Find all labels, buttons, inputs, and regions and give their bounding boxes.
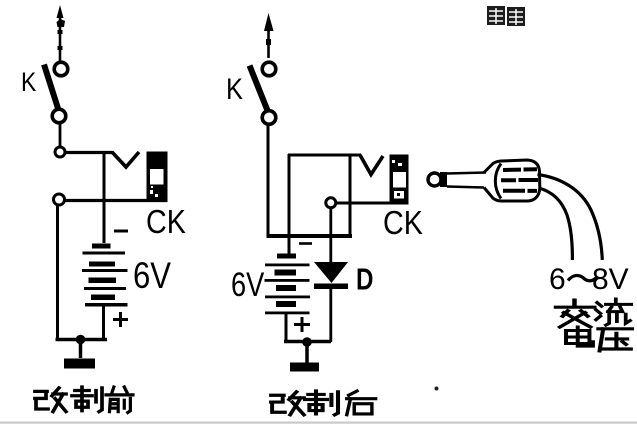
制 [305,391,338,415]
wire left arrow shaft [59,16,62,62]
node circle middle [326,198,336,208]
switch K2 bottom terminal [262,111,276,125]
switch K1 top terminal [54,62,68,76]
stamp mark top right [487,6,525,26]
middle arrowhead [264,13,274,31]
plug barrel body [484,160,540,201]
cord wire lower [539,188,572,260]
交 [556,300,594,327]
wire switch down [267,124,270,237]
ground GND1 [64,340,95,364]
svg-text:8V: 8V [592,263,629,296]
wire middle arrow shaft [267,26,270,58]
压 [598,329,632,351]
wire node down to diode [329,208,332,263]
svg-text:6: 6 [549,263,566,296]
svg-text:6V: 6V [231,265,265,304]
diode D triangle [314,262,348,283]
ground GND2 [290,342,319,367]
junction dot left [76,335,86,345]
left arrowhead [57,5,64,18]
wire switch to node [59,122,62,147]
svg-text:CK: CK [383,204,423,241]
plug barrel stripes [501,169,538,191]
jack CK2 spring contact V [360,155,383,175]
wire battery to bottom [102,306,105,340]
switch K1 blade [44,65,59,111]
cord wire upper [538,175,603,261]
diode D cathode bar [314,284,348,290]
前 [106,387,133,413]
wire node to jack contact [65,151,113,154]
后 [347,391,376,415]
svg-text:K: K [21,67,37,97]
label 电压 [566,327,632,351]
wire lower node to jack [65,199,168,202]
电 [566,327,593,346]
wire bottom left [56,338,108,342]
label 改制后 [271,391,376,415]
battery BT2 minus label [299,242,312,245]
plug tip collar [440,172,447,187]
battery BT1 minus label [114,230,128,233]
svg-text:K: K [226,72,243,105]
jack CK1 body [147,152,168,203]
改 [271,392,304,415]
speck [435,387,439,391]
label 交流 [556,299,631,327]
switch K2 top terminal [262,62,276,76]
svg-text:D: D [356,262,373,297]
制 [72,387,102,412]
plug tip [428,173,441,186]
wire node down to battery [103,152,106,243]
svg-text:6V: 6V [133,256,171,297]
battery BT2 plates [265,254,311,315]
wire bottom bus middle [267,234,353,238]
battery BT1 plus label [113,312,128,327]
jack CK1 spring contact V [112,152,139,167]
wire diode down [329,289,332,342]
switch K1 bottom terminal [52,109,66,123]
改 [35,388,66,412]
wire node to jack middle [336,202,390,205]
scan shadow bottom edge [0,422,637,424]
wire box top [288,154,361,157]
node circle left top [55,147,65,157]
junction dot middle [302,337,312,347]
plug shaft [447,173,486,188]
wire bottom middle [284,340,331,344]
jack CK2 body [390,155,409,205]
switch K2 blade [250,66,268,111]
wire box right vertical [349,156,352,237]
wire box left vertical [288,154,291,254]
node circle left lower [54,194,65,205]
svg-text:CK: CK [146,203,186,240]
battery BT1 plates [82,244,128,307]
label 改制前 [35,387,133,413]
wire battery bottom middle [285,314,288,342]
wire left side down [56,205,59,341]
battery BT2 plus label [294,317,310,332]
流 [596,299,631,325]
